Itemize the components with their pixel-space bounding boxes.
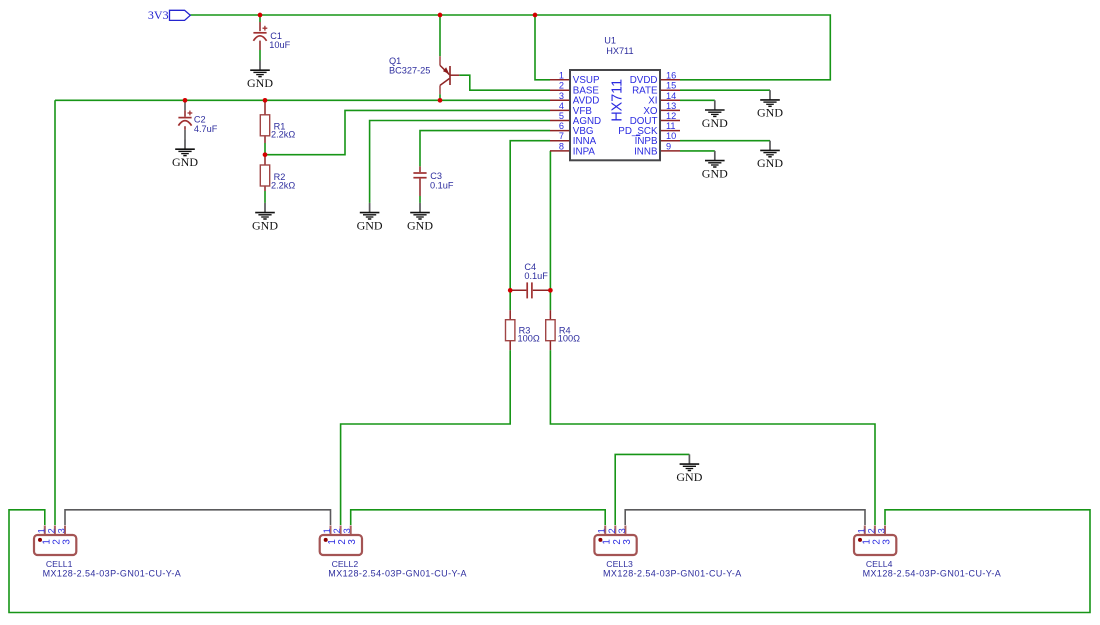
svg-text:3: 3 — [57, 528, 67, 533]
svg-text:0.1uF: 0.1uF — [430, 181, 454, 191]
svg-text:INNB: INNB — [634, 146, 658, 157]
svg-text:2: 2 — [559, 81, 564, 91]
svg-text:C3: C3 — [430, 171, 442, 181]
svg-text:2.2kΩ: 2.2kΩ — [271, 180, 295, 190]
svg-text:GND: GND — [757, 156, 783, 170]
svg-text:1: 1 — [597, 528, 607, 533]
svg-text:GND: GND — [407, 218, 433, 232]
svg-text:DVDD: DVDD — [630, 75, 658, 86]
svg-text:1: 1 — [36, 528, 46, 533]
svg-text:13: 13 — [666, 101, 676, 111]
svg-text:3: 3 — [882, 539, 893, 545]
svg-text:3: 3 — [622, 539, 633, 545]
svg-text:GND: GND — [247, 76, 273, 90]
svg-text:HX711: HX711 — [609, 79, 625, 122]
svg-text:12: 12 — [666, 111, 676, 121]
svg-text:14: 14 — [666, 91, 676, 101]
svg-text:MX128-2.54-03P-GN01-CU-Y-A: MX128-2.54-03P-GN01-CU-Y-A — [328, 569, 467, 579]
svg-text:4: 4 — [559, 101, 564, 111]
svg-text:10: 10 — [666, 131, 676, 141]
svg-text:2: 2 — [332, 528, 342, 533]
svg-text:HX711: HX711 — [606, 46, 633, 56]
svg-text:GND: GND — [172, 155, 198, 169]
svg-text:2.2kΩ: 2.2kΩ — [271, 129, 295, 139]
svg-text:VSUP: VSUP — [573, 75, 600, 86]
svg-text:1: 1 — [559, 70, 564, 80]
svg-text:Q1: Q1 — [389, 56, 401, 66]
svg-text:6: 6 — [559, 121, 564, 131]
svg-text:16: 16 — [666, 70, 676, 80]
svg-text:8: 8 — [559, 141, 564, 151]
svg-text:MX128-2.54-03P-GN01-CU-Y-A: MX128-2.54-03P-GN01-CU-Y-A — [603, 569, 742, 579]
svg-text:7: 7 — [559, 131, 564, 141]
svg-text:100Ω: 100Ω — [518, 333, 540, 343]
svg-text:3: 3 — [342, 528, 352, 533]
svg-text:BC327-25: BC327-25 — [389, 66, 430, 76]
svg-text:3: 3 — [559, 91, 564, 101]
svg-text:1: 1 — [322, 528, 332, 533]
svg-text:3: 3 — [877, 528, 887, 533]
svg-text:4.7uF: 4.7uF — [194, 124, 218, 134]
svg-text:MX128-2.54-03P-GN01-CU-Y-A: MX128-2.54-03P-GN01-CU-Y-A — [863, 569, 1002, 579]
svg-text:11: 11 — [666, 121, 676, 131]
svg-text:C2: C2 — [194, 115, 206, 125]
svg-text:INPA: INPA — [573, 146, 596, 157]
svg-text:3: 3 — [617, 528, 627, 533]
svg-text:MX128-2.54-03P-GN01-CU-Y-A: MX128-2.54-03P-GN01-CU-Y-A — [43, 569, 182, 579]
svg-text:9: 9 — [666, 141, 671, 151]
svg-text:0.1uF: 0.1uF — [524, 271, 548, 281]
svg-text:GND: GND — [702, 166, 728, 180]
svg-text:3V3: 3V3 — [148, 8, 169, 22]
svg-text:GND: GND — [357, 218, 383, 232]
svg-text:2: 2 — [46, 528, 56, 533]
svg-text:GND: GND — [757, 106, 783, 120]
svg-text:5: 5 — [559, 111, 564, 121]
svg-text:15: 15 — [666, 81, 676, 91]
svg-text:3: 3 — [347, 539, 358, 545]
svg-text:2: 2 — [607, 528, 617, 533]
svg-text:U1: U1 — [604, 36, 616, 46]
svg-text:2: 2 — [866, 528, 876, 533]
svg-text:100Ω: 100Ω — [558, 333, 580, 343]
svg-text:1: 1 — [856, 528, 866, 533]
svg-text:3: 3 — [62, 539, 73, 545]
svg-text:GND: GND — [676, 470, 702, 484]
svg-text:GND: GND — [252, 218, 278, 232]
svg-text:GND: GND — [702, 116, 728, 130]
svg-text:10uF: 10uF — [269, 40, 290, 50]
